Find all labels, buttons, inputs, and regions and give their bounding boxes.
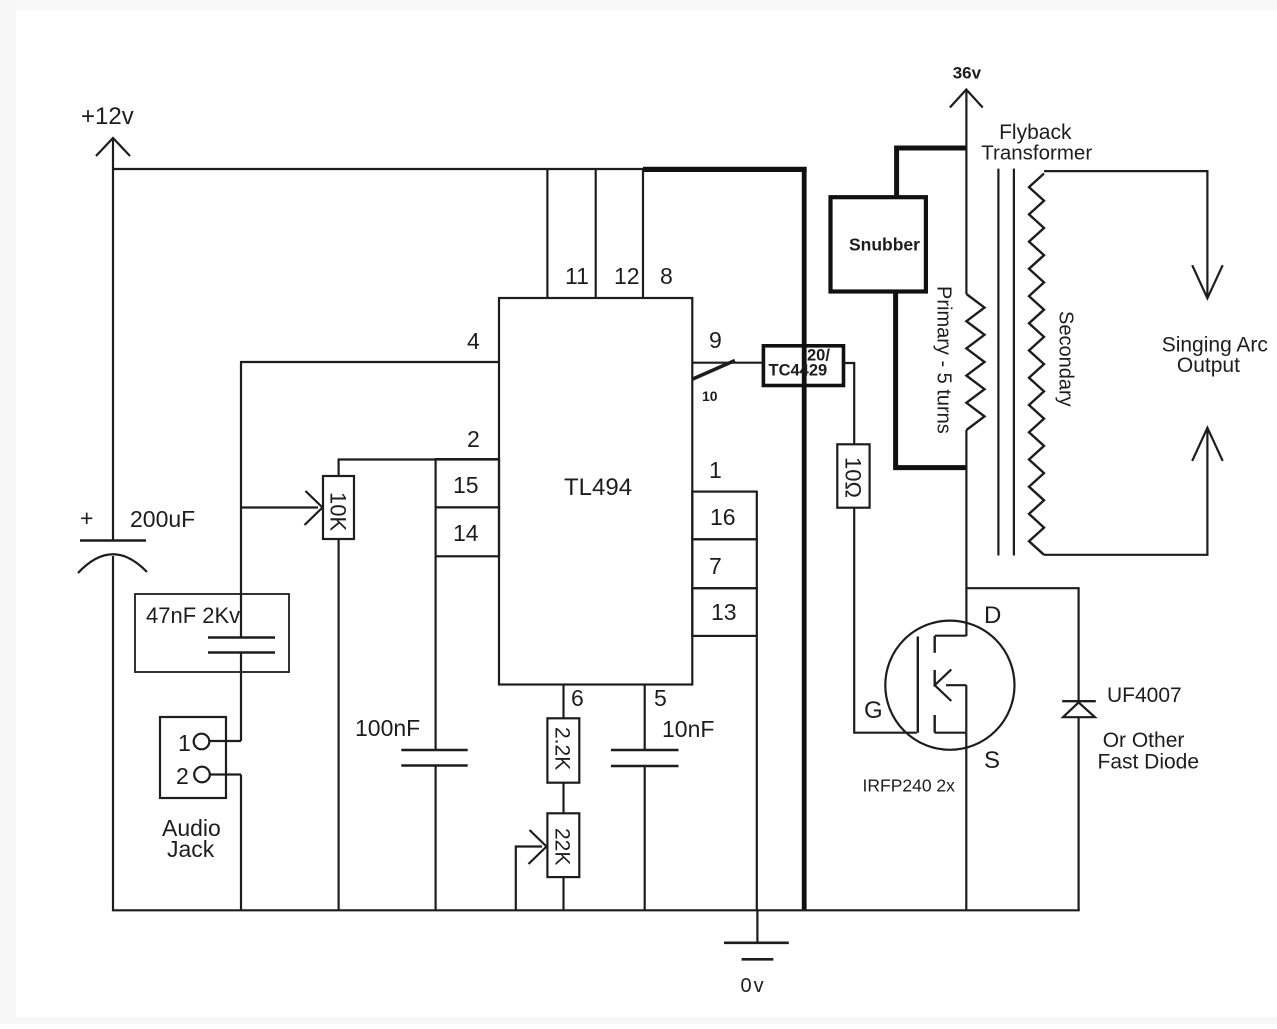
svg-text:1: 1 [178, 730, 191, 756]
wire R1 bottom to ground rail [338, 539, 340, 911]
wire +12v vertical rail upper [112, 139, 114, 540]
svg-text:TC4429: TC4429 [769, 362, 828, 380]
wire R2 to R3 [562, 783, 564, 814]
wire drain to diode D1 [966, 588, 1078, 701]
pin box 7 [692, 539, 757, 588]
wire primary bottom to drain [965, 430, 967, 636]
svg-text:UF4007: UF4007 [1107, 684, 1182, 707]
output arrow up [1192, 428, 1223, 461]
pin 14 label [453, 520, 479, 546]
wire ground rail [112, 909, 1080, 911]
diode D1 UF4007 [1062, 701, 1096, 717]
wire wiper arrow into R3 [516, 830, 547, 910]
wire secondary bottom to output [1044, 430, 1207, 555]
potentiometer R1 10K [323, 476, 354, 539]
wire TL494 pin 8 [642, 169, 644, 298]
wire thick top bus horizontal [643, 167, 807, 172]
capacitor C3 100nF [401, 750, 467, 766]
wire TL494 pin 6 [562, 685, 564, 719]
svg-text:Snubber: Snubber [849, 235, 920, 255]
wire C2 to audio jack pin 1 [209, 652, 241, 741]
wire left rail lower [112, 556, 114, 911]
capacitor C1 200uF polarized [78, 505, 195, 573]
pin 7 label [709, 553, 722, 579]
svg-text:G: G [864, 697, 883, 724]
svg-text:5: 5 [654, 685, 667, 711]
IC U1 TL494 [499, 298, 692, 685]
wire C3 to ground rail [435, 766, 437, 912]
wire TL494 pin 11 [546, 169, 548, 298]
svg-text:2.2K: 2.2K [551, 727, 574, 770]
pin 6 label [571, 685, 584, 711]
wire snubber bottom thick [896, 292, 967, 468]
svg-text:+12v: +12v [81, 103, 134, 130]
label UF4007 [1107, 684, 1182, 707]
pin box 13 [692, 588, 757, 636]
svg-text:10Ω: 10Ω [841, 457, 866, 498]
label Flyback Transformer [981, 121, 1092, 165]
svg-text:Fast Diode: Fast Diode [1098, 750, 1200, 773]
svg-text:Output: Output [1177, 354, 1240, 377]
wire pins 15-14 to C3 [435, 556, 437, 750]
svg-text:Secondary: Secondary [1055, 311, 1077, 407]
pin 10 label [702, 388, 718, 404]
wire thick drain bus vertical [802, 167, 807, 911]
wire R1 top to TL494 pin 2 [339, 460, 499, 477]
svg-text:1: 1 [709, 457, 722, 483]
label 0v [741, 975, 766, 997]
wire R4 to Q1 gate [854, 508, 917, 733]
transformer T1 primary winding [966, 294, 984, 430]
pin 2 label [467, 426, 480, 452]
svg-text:15: 15 [453, 472, 479, 498]
pin box 15 [436, 459, 499, 507]
pin 10 tie slash [692, 361, 735, 380]
wire wiper arrow into R1 [241, 491, 323, 525]
svg-text:16: 16 [710, 504, 736, 530]
svg-text:0v: 0v [741, 975, 766, 997]
label Singing Arc Output [1162, 334, 1268, 377]
resistor R4 10 ohm [837, 444, 869, 507]
svg-text:10K: 10K [326, 492, 351, 531]
resistor R2 2.2K [547, 718, 579, 782]
wire +12v top horizontal rail [112, 168, 644, 170]
wire audio jack pin 2 to ground rail [210, 775, 241, 912]
transistor Q1 IRFP240 [885, 621, 1014, 750]
svg-text:47nF 2Kv: 47nF 2Kv [146, 603, 240, 628]
svg-text:22K: 22K [551, 828, 574, 865]
pin 5 label [654, 685, 667, 711]
pin 11 label [565, 263, 589, 289]
pin 9 label [709, 327, 722, 353]
label C4 10nF [662, 716, 714, 742]
pin 12 label [614, 263, 640, 289]
svg-text:9: 9 [709, 327, 722, 353]
capacitor C2 47nF 2Kv [135, 594, 289, 672]
svg-text:36v: 36v [953, 63, 982, 82]
wire snubber top thick [897, 148, 967, 197]
svg-text:10: 10 [702, 388, 718, 404]
wire TL494 pin 5 [644, 685, 646, 751]
output arrow down [1192, 265, 1223, 298]
svg-text:200uF: 200uF [130, 506, 195, 532]
wire pin boxes to ground stem [756, 636, 758, 911]
pin 8 label [660, 263, 673, 289]
wire U2 output to R4 [844, 363, 855, 444]
wire C4 to ground rail [644, 766, 646, 911]
transformer T1 secondary winding [1029, 174, 1044, 555]
connector J1 audio jack [160, 717, 226, 798]
svg-text:14: 14 [453, 520, 479, 546]
pin 13 label [711, 599, 737, 625]
pin box 16 [692, 492, 757, 540]
svg-text:4: 4 [467, 328, 480, 354]
transformer T1 core [998, 169, 1014, 556]
snubber module [831, 197, 926, 291]
power rail 36v symbol [950, 63, 983, 107]
wire R3 bottom to ground rail [562, 877, 564, 911]
label S [984, 747, 1000, 774]
svg-text:2: 2 [176, 763, 189, 789]
label G [864, 697, 883, 724]
capacitor C4 10nF [611, 750, 679, 766]
svg-text:Jack: Jack [167, 836, 215, 862]
svg-text:Transformer: Transformer [981, 142, 1092, 165]
svg-text:IRFP240 2x: IRFP240 2x [863, 776, 956, 796]
pin 15 label [453, 472, 479, 498]
svg-text:8: 8 [660, 263, 673, 289]
svg-text:TL494: TL494 [564, 474, 632, 501]
svg-text:Or Other: Or Other [1103, 729, 1185, 752]
svg-text:Primary - 5 turns: Primary - 5 turns [933, 286, 955, 434]
svg-text:13: 13 [711, 599, 737, 625]
svg-text:12: 12 [614, 263, 640, 289]
svg-text:6: 6 [571, 685, 584, 711]
label C3 100nF [355, 715, 420, 741]
power rail +12v symbol [81, 103, 134, 156]
wire secondary top to output [1044, 171, 1207, 296]
label Primary - 5 turns [933, 286, 955, 434]
pin 4 label [467, 328, 480, 354]
wire D1 to ground rail [1077, 717, 1079, 911]
potentiometer R3 22K [547, 813, 579, 877]
pin 16 label [710, 504, 736, 530]
pin box 14 [436, 507, 499, 556]
svg-text:S: S [984, 747, 1000, 774]
wire TL494 pin 12 [595, 169, 597, 298]
wire TL494 pin 4 branch to node A [240, 362, 499, 637]
wire TL494 pin 9 to U2 [692, 362, 763, 364]
wire Q1 source to ground rail [965, 733, 967, 911]
label Secondary [1055, 311, 1077, 407]
label Audio Jack [162, 815, 221, 862]
svg-text:2: 2 [467, 426, 480, 452]
svg-text:100nF: 100nF [355, 715, 420, 741]
svg-text:D: D [984, 602, 1001, 629]
label Or Other Fast Diode [1098, 729, 1200, 774]
svg-text:7: 7 [709, 553, 722, 579]
label D [984, 602, 1001, 629]
svg-text:11: 11 [565, 263, 589, 289]
pin 1 label [709, 457, 722, 483]
svg-text:10nF: 10nF [662, 716, 714, 742]
wire 36v to primary [965, 91, 967, 295]
ground symbol [724, 910, 789, 959]
svg-text:+: + [80, 505, 93, 531]
driver U2 TC4429 [763, 346, 843, 386]
label IRFP240 2x [863, 776, 956, 796]
